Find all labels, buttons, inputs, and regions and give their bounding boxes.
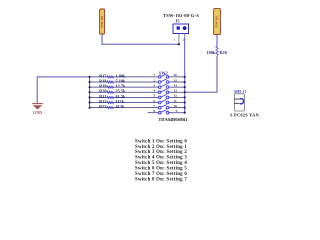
svg-text:R16: R16 — [220, 50, 228, 55]
switch SW2 section 5 — [158, 94, 168, 98]
svg-text:6: 6 — [153, 99, 155, 103]
svg-text:10: 10 — [173, 104, 177, 108]
svg-text:1: 1 — [153, 73, 155, 77]
svg-text:GND: GND — [33, 110, 42, 115]
wire row 7 right — [169, 107, 185, 109]
wire row 2 right — [169, 81, 185, 83]
svg-text:Switch 1 On: Setting 0: Switch 1 On: Setting 0 — [135, 139, 187, 144]
resistor R22 — [107, 101, 114, 103]
svg-text:Switch 8 On: Setting 7: Switch 8 On: Setting 7 — [135, 178, 187, 183]
svg-text:2: 2 — [153, 78, 155, 82]
jumper Y1 — [100, 9, 105, 34]
switch SW2 section 1 — [158, 74, 168, 78]
junction row 6 on right bus — [184, 101, 186, 103]
svg-text:3: 3 — [153, 83, 155, 87]
junction row 4 on left bus — [89, 91, 91, 93]
wire row 6 left — [90, 102, 159, 104]
svg-text:100k: 100k — [206, 50, 215, 55]
junction row 1 on right bus — [184, 76, 186, 78]
junction row 4 on right bus — [184, 91, 186, 93]
junction row 7 on left bus — [89, 107, 91, 109]
wire row 4 left — [90, 91, 159, 93]
pin 1 stub — [178, 34, 180, 45]
resistor R19 — [107, 86, 114, 88]
node left bus — [89, 77, 91, 108]
wire left bus to ground — [37, 77, 89, 103]
wire row 1 left — [90, 76, 159, 78]
svg-text:Switch 5 On: Setting 4: Switch 5 On: Setting 4 — [135, 161, 187, 166]
wire R16 to bus row 4 — [185, 56, 217, 92]
svg-text:13: 13 — [173, 89, 177, 93]
svg-text:TSW-102: TSW-102 — [215, 15, 219, 28]
svg-text:Switch 6 On: Setting 5: Switch 6 On: Setting 5 — [135, 167, 187, 172]
note switch settings — [135, 139, 187, 182]
svg-text:TDA04H0S8R1: TDA04H0S8R1 — [158, 117, 187, 122]
svg-text:TSW-102-08-G-S: TSW-102-08-G-S — [163, 13, 199, 18]
svg-text:5: 5 — [153, 94, 155, 98]
svg-text:8: 8 — [153, 109, 155, 113]
svg-text:Switch 7 On: Setting 6: Switch 7 On: Setting 6 — [135, 172, 187, 177]
junction row 3 on right bus — [184, 86, 186, 88]
resistor R16 — [216, 46, 218, 56]
junction row 2 on left bus — [89, 81, 91, 83]
svg-text:14: 14 — [173, 83, 177, 87]
svg-text:4: 4 — [153, 89, 155, 93]
svg-text:Switch 2 On: Setting 1: Switch 2 On: Setting 1 — [135, 145, 187, 150]
svg-text:12: 12 — [173, 94, 177, 98]
svg-text:S PC02S YAN: S PC02S YAN — [230, 112, 260, 117]
svg-text:J5: J5 — [175, 18, 179, 23]
svg-text:Switch 4 On: Setting 3: Switch 4 On: Setting 3 — [135, 156, 187, 161]
junction at J5 pin 1 — [178, 43, 180, 45]
svg-text:412k: 412k — [116, 104, 125, 109]
resistor R21 — [107, 96, 114, 98]
switch SW2 section 7 — [158, 105, 168, 109]
wire row 8 left stub — [148, 112, 159, 114]
switch SW2 section 4 — [158, 89, 168, 93]
svg-text:16: 16 — [173, 73, 177, 77]
junction row 1 on left bus — [89, 76, 91, 78]
wire row 8 right — [169, 112, 185, 114]
ground — [32, 104, 43, 115]
resistor R18 — [107, 81, 114, 83]
svg-text:1: 1 — [174, 38, 176, 42]
resistor R20 — [107, 91, 114, 93]
wire row 3 right — [169, 86, 185, 88]
wire row 3 left — [90, 86, 159, 88]
svg-text:R23: R23 — [99, 104, 106, 109]
junction row 8 on right bus — [184, 112, 186, 114]
svg-text:TSW-102: TSW-102 — [100, 15, 104, 28]
junction row 7 on right bus — [184, 107, 186, 109]
wire row 2 left — [90, 81, 159, 83]
wire row 5 left — [90, 96, 159, 98]
switch SW2 section 8 — [158, 110, 168, 114]
switch SW2 section 3 — [158, 84, 168, 88]
junction row 6 on left bus — [89, 101, 91, 103]
svg-text:Switch 3 On: Setting 2: Switch 3 On: Setting 2 — [135, 150, 187, 155]
jumper Y2 — [214, 9, 221, 35]
junction row 3 on left bus — [89, 86, 91, 88]
svg-text:9: 9 — [176, 109, 178, 113]
wire row 7 left — [90, 107, 159, 109]
wire row 1 right — [169, 76, 185, 78]
svg-text:2: 2 — [182, 38, 184, 42]
wire J5 pin 2 to right bus — [184, 38, 186, 113]
svg-text:7: 7 — [153, 104, 155, 108]
switch SW2 section 2 — [158, 79, 168, 83]
header J5 — [173, 24, 189, 34]
wire row 4 right — [169, 91, 185, 93]
junction row 5 on left bus — [89, 96, 91, 98]
wire row 6 right — [169, 102, 185, 104]
svg-text:MH-J1: MH-J1 — [234, 89, 246, 94]
svg-text:SW2: SW2 — [159, 71, 168, 76]
svg-text:15: 15 — [173, 78, 177, 82]
svg-text:11: 11 — [173, 99, 177, 103]
wire Y2 to R16 — [216, 35, 218, 46]
junction row 2 on right bus — [184, 81, 186, 83]
switch SW2 section 6 — [158, 100, 168, 104]
wire row 5 right — [169, 96, 185, 98]
resistor R17 — [107, 76, 114, 78]
resistor R23 — [107, 107, 114, 109]
junction row 5 on right bus — [184, 96, 186, 98]
connector MH-J1 — [234, 94, 244, 111]
pin 2 stub — [184, 34, 186, 42]
wire Y1 to J5 pin 1 — [102, 34, 179, 44]
